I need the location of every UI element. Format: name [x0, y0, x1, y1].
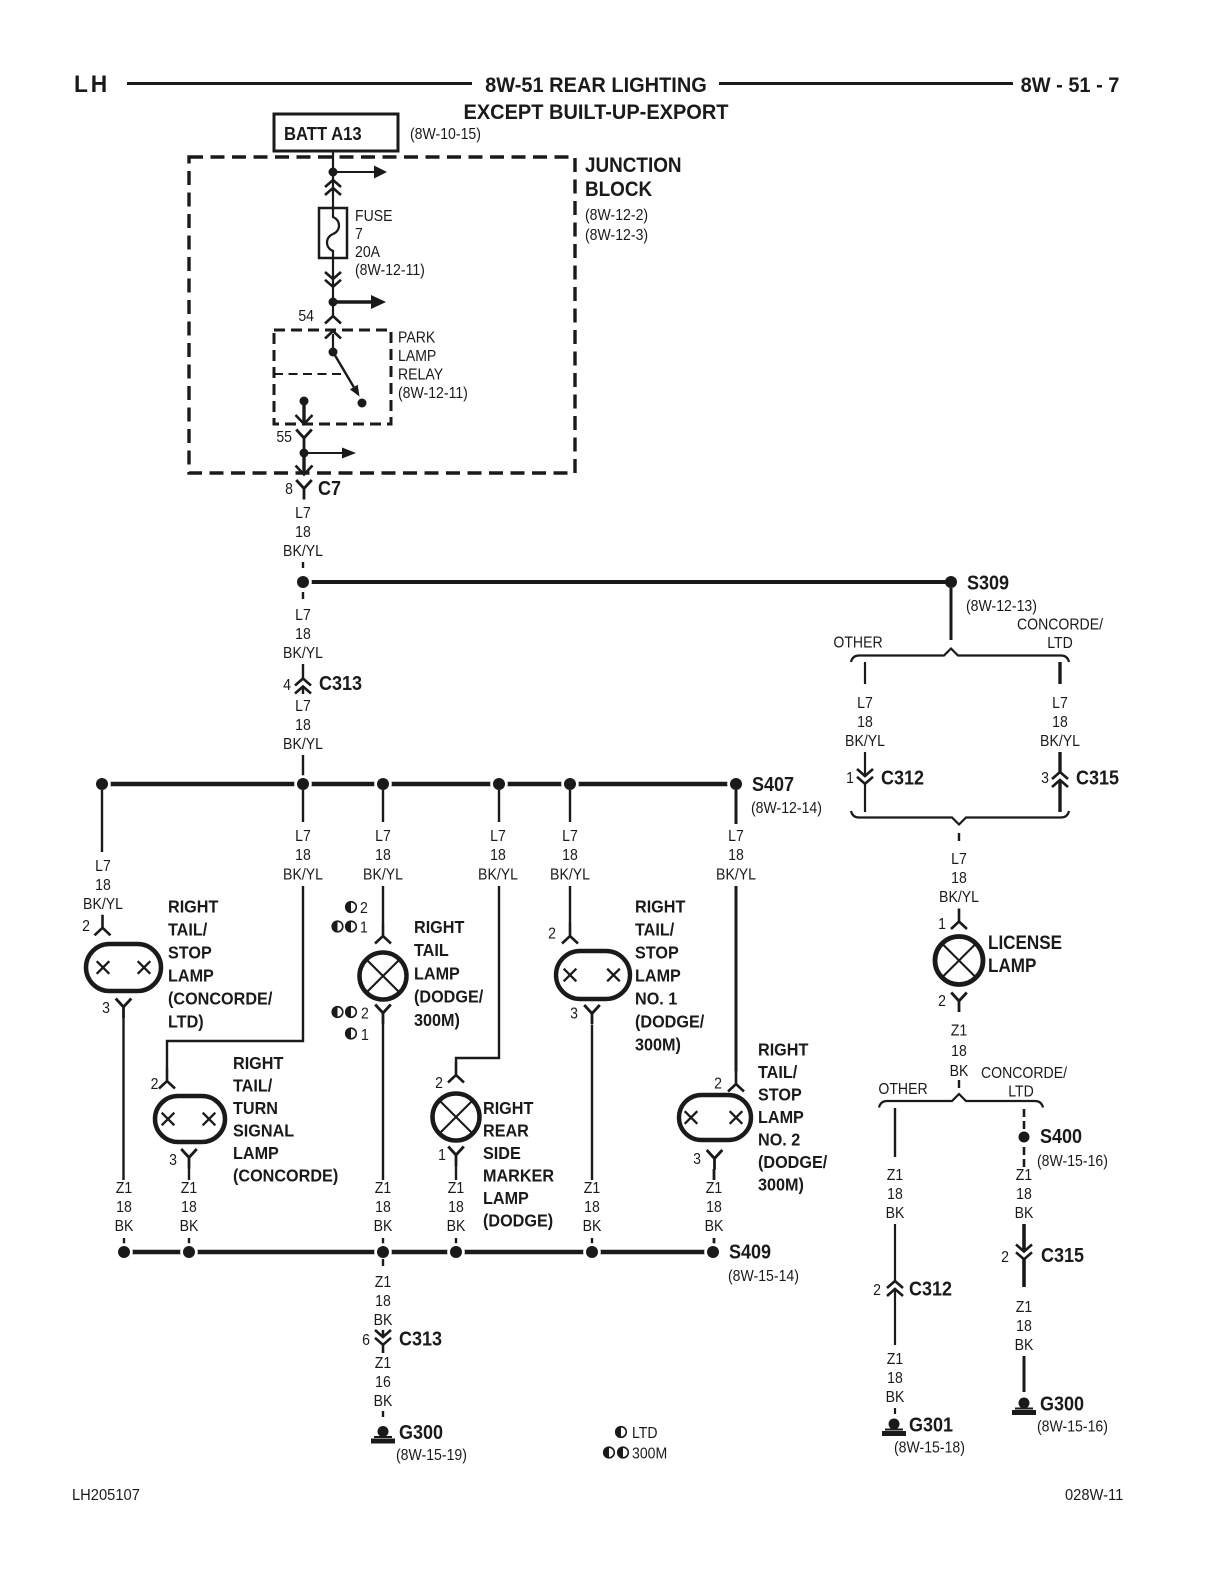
svg-text:18: 18	[181, 1198, 197, 1216]
svg-text:BK: BK	[447, 1217, 466, 1235]
svg-text:18: 18	[562, 846, 578, 864]
svg-text:Z1: Z1	[706, 1179, 722, 1197]
svg-text:Z1: Z1	[584, 1179, 600, 1197]
svg-text:LAMP: LAMP	[414, 964, 460, 984]
svg-text:Z1: Z1	[375, 1354, 391, 1372]
svg-text:18: 18	[1016, 1185, 1032, 1203]
svg-text:18: 18	[375, 1292, 391, 1310]
svg-text:BK: BK	[886, 1204, 905, 1222]
svg-text:3: 3	[1041, 769, 1049, 787]
svg-text:L7: L7	[857, 694, 873, 712]
svg-text:Z1: Z1	[1016, 1166, 1032, 1184]
svg-text:18: 18	[706, 1198, 722, 1216]
svg-text:G300: G300	[1040, 1394, 1084, 1416]
svg-text:STOP: STOP	[168, 943, 212, 963]
svg-text:LAMP: LAMP	[168, 966, 214, 986]
svg-text:2: 2	[151, 1075, 159, 1093]
svg-text:BK/YL: BK/YL	[283, 866, 323, 884]
svg-text:S409: S409	[729, 1242, 771, 1264]
svg-text:PARK: PARK	[398, 329, 435, 347]
svg-text:OTHER: OTHER	[833, 634, 882, 652]
svg-text:TAIL/: TAIL/	[635, 920, 674, 940]
svg-text:BK: BK	[1015, 1336, 1034, 1354]
svg-text:TURN: TURN	[233, 1098, 278, 1118]
svg-text:RIGHT: RIGHT	[233, 1053, 284, 1073]
svg-text:2: 2	[360, 899, 368, 917]
svg-text:2: 2	[938, 992, 946, 1010]
svg-text:C315: C315	[1041, 1245, 1084, 1267]
svg-text:CONCORDE/: CONCORDE/	[1017, 616, 1104, 634]
svg-text:LAMP: LAMP	[398, 347, 436, 365]
svg-text:(DODGE): (DODGE)	[483, 1211, 553, 1231]
svg-text:3: 3	[570, 1005, 578, 1023]
svg-text:Z1: Z1	[375, 1179, 391, 1197]
svg-text:300M: 300M	[632, 1445, 667, 1463]
svg-text:1: 1	[361, 1026, 369, 1044]
svg-text:BK/YL: BK/YL	[283, 644, 323, 662]
svg-text:18: 18	[584, 1198, 600, 1216]
svg-text:2: 2	[361, 1005, 369, 1023]
svg-text:LTD: LTD	[1008, 1083, 1034, 1101]
svg-text:Z1: Z1	[375, 1273, 391, 1291]
svg-text:NO. 2: NO. 2	[758, 1130, 800, 1150]
svg-text:LTD: LTD	[1047, 634, 1073, 652]
svg-text:JUNCTION: JUNCTION	[585, 154, 682, 177]
svg-text:BK/YL: BK/YL	[283, 542, 323, 560]
svg-text:BK: BK	[374, 1311, 393, 1329]
svg-text:(DODGE/: (DODGE/	[758, 1152, 827, 1172]
svg-text:RIGHT: RIGHT	[483, 1098, 534, 1118]
svg-text:18: 18	[887, 1369, 903, 1387]
svg-text:Z1: Z1	[887, 1166, 903, 1184]
svg-text:BK: BK	[950, 1062, 969, 1080]
svg-text:BK: BK	[583, 1217, 602, 1235]
svg-text:BK/YL: BK/YL	[550, 866, 590, 884]
svg-text:STOP: STOP	[758, 1085, 802, 1105]
svg-text:2: 2	[435, 1074, 443, 1092]
svg-text:(DODGE/: (DODGE/	[635, 1012, 704, 1032]
svg-text:3: 3	[693, 1150, 701, 1168]
svg-text:LAMP: LAMP	[635, 966, 681, 986]
svg-text:18: 18	[295, 523, 311, 541]
svg-text:G300: G300	[399, 1422, 443, 1444]
svg-text:55: 55	[276, 428, 292, 446]
svg-text:LAMP: LAMP	[483, 1188, 529, 1208]
svg-text:L7: L7	[295, 606, 311, 624]
svg-text:2: 2	[714, 1075, 722, 1093]
svg-text:2: 2	[548, 925, 556, 943]
svg-text:(8W-12-11): (8W-12-11)	[355, 261, 425, 279]
svg-text:RIGHT: RIGHT	[414, 917, 465, 937]
svg-text:3: 3	[169, 1151, 177, 1169]
svg-text:18: 18	[295, 846, 311, 864]
svg-text:18: 18	[951, 1042, 967, 1060]
svg-text:RELAY: RELAY	[398, 366, 443, 384]
svg-text:C313: C313	[399, 1329, 442, 1351]
svg-text:1: 1	[846, 769, 854, 787]
svg-text:18: 18	[295, 625, 311, 643]
svg-text:L7: L7	[375, 827, 391, 845]
svg-text:Z1: Z1	[951, 1022, 967, 1040]
svg-text:(CONCORDE): (CONCORDE)	[233, 1166, 338, 1186]
svg-text:STOP: STOP	[635, 943, 679, 963]
svg-text:LICENSE: LICENSE	[988, 932, 1062, 953]
svg-text:SIDE: SIDE	[483, 1143, 521, 1163]
svg-text:TAIL/: TAIL/	[233, 1076, 272, 1096]
svg-text:S407: S407	[752, 774, 794, 796]
svg-text:G301: G301	[909, 1415, 953, 1437]
svg-text:LTD: LTD	[632, 1424, 658, 1442]
svg-text:MARKER: MARKER	[483, 1166, 554, 1186]
svg-text:18: 18	[116, 1198, 132, 1216]
svg-text:BK: BK	[886, 1388, 905, 1406]
svg-text:C315: C315	[1076, 768, 1119, 790]
svg-text:BK/YL: BK/YL	[716, 866, 756, 884]
svg-text:LTD): LTD)	[168, 1012, 204, 1032]
svg-text:(8W-15-19): (8W-15-19)	[396, 1446, 467, 1464]
svg-text:(DODGE/: (DODGE/	[414, 987, 483, 1007]
svg-text:TAIL/: TAIL/	[168, 920, 207, 940]
svg-text:18: 18	[95, 876, 111, 894]
svg-text:18: 18	[728, 846, 744, 864]
svg-text:L7: L7	[490, 827, 506, 845]
svg-text:16: 16	[375, 1373, 391, 1391]
svg-text:7: 7	[355, 225, 363, 243]
svg-text:8W - 51 - 7: 8W - 51 - 7	[1021, 73, 1120, 97]
svg-text:Z1: Z1	[1016, 1298, 1032, 1316]
svg-text:S400: S400	[1040, 1126, 1082, 1148]
svg-text:300M): 300M)	[635, 1035, 681, 1055]
svg-text:18: 18	[295, 716, 311, 734]
svg-text:18: 18	[375, 846, 391, 864]
svg-text:(8W-15-18): (8W-15-18)	[894, 1439, 965, 1457]
svg-text:BK/YL: BK/YL	[939, 888, 979, 906]
svg-text:Z1: Z1	[181, 1179, 197, 1197]
svg-text:L7: L7	[295, 504, 311, 522]
svg-text:RIGHT: RIGHT	[168, 897, 219, 917]
svg-text:(CONCORDE/: (CONCORDE/	[168, 989, 273, 1009]
svg-text:18: 18	[951, 869, 967, 887]
svg-text:BK/YL: BK/YL	[1040, 732, 1080, 750]
svg-text:BK: BK	[374, 1392, 393, 1410]
svg-text:L7: L7	[1052, 694, 1068, 712]
svg-text:NO. 1: NO. 1	[635, 989, 678, 1009]
svg-text:Z1: Z1	[116, 1179, 132, 1197]
svg-text:(8W-12-14): (8W-12-14)	[751, 799, 822, 817]
svg-text:4: 4	[283, 676, 291, 694]
svg-text:028W-11: 028W-11	[1065, 1486, 1123, 1504]
svg-text:8: 8	[285, 480, 293, 498]
svg-text:18: 18	[375, 1198, 391, 1216]
svg-text:L7: L7	[295, 697, 311, 715]
svg-text:C7: C7	[318, 478, 341, 500]
svg-text:(8W-12-2): (8W-12-2)	[585, 206, 648, 224]
svg-text:S309: S309	[967, 573, 1009, 595]
svg-text:BK: BK	[180, 1217, 199, 1235]
svg-text:BLOCK: BLOCK	[585, 178, 653, 201]
svg-text:C312: C312	[881, 768, 924, 790]
svg-text:(8W-15-16): (8W-15-16)	[1037, 1152, 1108, 1170]
svg-text:EXCEPT BUILT-UP-EXPORT: EXCEPT BUILT-UP-EXPORT	[463, 100, 728, 124]
svg-text:1: 1	[438, 1146, 446, 1164]
svg-text:L7: L7	[562, 827, 578, 845]
svg-text:2: 2	[82, 917, 90, 935]
svg-text:LAMP: LAMP	[758, 1107, 804, 1127]
svg-text:OTHER: OTHER	[878, 1080, 927, 1098]
svg-text:2: 2	[873, 1281, 881, 1299]
svg-text:(8W-10-15): (8W-10-15)	[410, 125, 481, 143]
svg-text:8W-51 REAR LIGHTING: 8W-51 REAR LIGHTING	[485, 73, 707, 97]
svg-text:TAIL: TAIL	[414, 940, 449, 960]
svg-text:BK/YL: BK/YL	[83, 895, 123, 913]
svg-text:54: 54	[298, 307, 314, 325]
svg-text:Z1: Z1	[448, 1179, 464, 1197]
svg-text:18: 18	[448, 1198, 464, 1216]
svg-text:L7: L7	[951, 850, 967, 868]
svg-text:C313: C313	[319, 673, 362, 695]
svg-text:18: 18	[490, 846, 506, 864]
svg-text:BK: BK	[705, 1217, 724, 1235]
svg-text:6: 6	[362, 1331, 370, 1349]
svg-text:18: 18	[887, 1185, 903, 1203]
svg-text:BK: BK	[374, 1217, 393, 1235]
svg-text:BK/YL: BK/YL	[283, 735, 323, 753]
svg-text:(8W-12-13): (8W-12-13)	[966, 597, 1037, 615]
svg-text:(8W-15-14): (8W-15-14)	[728, 1267, 799, 1285]
svg-text:REAR: REAR	[483, 1121, 529, 1141]
svg-text:CONCORDE/: CONCORDE/	[981, 1064, 1068, 1082]
svg-text:3: 3	[102, 999, 110, 1017]
svg-text:20A: 20A	[355, 243, 381, 261]
svg-text:LAMP: LAMP	[988, 955, 1036, 976]
svg-text:1: 1	[360, 919, 368, 937]
svg-text:LAMP: LAMP	[233, 1143, 279, 1163]
svg-text:BK/YL: BK/YL	[363, 866, 403, 884]
svg-text:BATT A13: BATT A13	[284, 123, 362, 144]
svg-text:L7: L7	[95, 857, 111, 875]
svg-text:1: 1	[938, 915, 946, 933]
svg-text:18: 18	[1016, 1317, 1032, 1335]
svg-text:BK: BK	[115, 1217, 134, 1235]
svg-text:LH: LH	[74, 70, 110, 97]
svg-text:(8W-12-3): (8W-12-3)	[585, 226, 648, 244]
svg-text:RIGHT: RIGHT	[635, 897, 686, 917]
svg-text:BK/YL: BK/YL	[845, 732, 885, 750]
svg-text:RIGHT: RIGHT	[758, 1040, 809, 1060]
svg-text:L7: L7	[728, 827, 744, 845]
svg-text:C312: C312	[909, 1279, 952, 1301]
svg-text:FUSE: FUSE	[355, 207, 393, 225]
svg-text:L7: L7	[295, 827, 311, 845]
svg-text:SIGNAL: SIGNAL	[233, 1121, 294, 1141]
svg-text:BK/YL: BK/YL	[478, 866, 518, 884]
svg-text:LH205107: LH205107	[72, 1486, 140, 1504]
svg-text:TAIL/: TAIL/	[758, 1062, 797, 1082]
svg-text:300M): 300M)	[758, 1175, 804, 1195]
svg-text:Z1: Z1	[887, 1350, 903, 1368]
svg-text:2: 2	[1001, 1248, 1009, 1266]
svg-text:(8W-15-16): (8W-15-16)	[1037, 1418, 1108, 1436]
svg-text:300M): 300M)	[414, 1010, 460, 1030]
svg-text:18: 18	[857, 713, 873, 731]
svg-text:(8W-12-11): (8W-12-11)	[398, 384, 468, 402]
svg-text:18: 18	[1052, 713, 1068, 731]
svg-text:BK: BK	[1015, 1204, 1034, 1222]
